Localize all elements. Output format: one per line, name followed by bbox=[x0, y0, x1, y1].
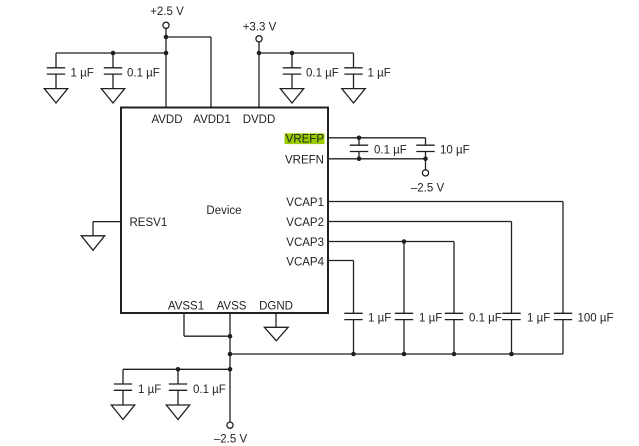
svg-text:VCAP3: VCAP3 bbox=[286, 237, 324, 249]
capacitor C11 100 uF (VCAP1) bbox=[554, 313, 614, 355]
svg-text:DVDD: DVDD bbox=[243, 114, 276, 126]
svg-text:VREFN: VREFN bbox=[285, 154, 324, 166]
ground (below C3) bbox=[280, 89, 303, 103]
power terminal -2.5 V (VREFN) bbox=[411, 170, 445, 195]
svg-text:–2.5 V: –2.5 V bbox=[214, 434, 248, 446]
svg-text:VCAP1: VCAP1 bbox=[286, 197, 324, 209]
wire RESV1 pin (horizontal) bbox=[93, 221, 121, 223]
power terminal +2.5 V (top) bbox=[150, 6, 184, 28]
pin label VREFP (highlighted) bbox=[285, 133, 325, 145]
ground (RESV1) bbox=[81, 236, 104, 251]
svg-text:AVDD: AVDD bbox=[151, 114, 182, 126]
node junction bus C7 bbox=[351, 352, 356, 357]
svg-text:1 µF: 1 µF bbox=[368, 68, 391, 80]
svg-text:100 µF: 100 µF bbox=[578, 313, 614, 325]
wire VCAP2 net (vertical) bbox=[511, 222, 513, 314]
wire VCAP3 net (vertical) bbox=[453, 242, 455, 314]
node junction bus C8 bbox=[402, 352, 407, 357]
wire +2.5V cap rail (horizontal) bbox=[56, 52, 166, 54]
wire VCAP1 net (horizontal) bbox=[328, 201, 563, 203]
node junction C5 top bbox=[357, 136, 362, 141]
svg-text:1 µF: 1 µF bbox=[419, 313, 442, 325]
node junction VCAP3 branch bbox=[402, 239, 407, 244]
capacitor C13 0.1 uF (bottom left) bbox=[169, 369, 226, 407]
capacitor C7 1 uF (VCAP4) bbox=[344, 313, 391, 355]
svg-text:VREFP: VREFP bbox=[286, 134, 325, 146]
wire VCAP4 net (vertical) bbox=[353, 261, 355, 314]
capacitor C9 0.1 uF (VCAP3) bbox=[445, 313, 502, 355]
ground (below C13) bbox=[166, 405, 189, 420]
svg-text:AVDD1: AVDD1 bbox=[193, 114, 231, 126]
wire AVSS1 to AVSS (horizontal) bbox=[184, 335, 230, 337]
svg-text:DGND: DGND bbox=[259, 301, 293, 313]
ground (below C1) bbox=[44, 89, 67, 103]
capacitor C5 0.1 uF (VREF) bbox=[350, 138, 407, 159]
node junction +3.3V cap rail bbox=[257, 51, 262, 56]
node junction +2.5V cap rail bbox=[164, 51, 169, 56]
wire VCAP1 net (vertical) bbox=[562, 202, 564, 314]
svg-text:1 µF: 1 µF bbox=[71, 68, 94, 80]
svg-text:RESV1: RESV1 bbox=[130, 217, 168, 229]
ground (below C12) bbox=[111, 405, 134, 420]
capacitor C4 1 uF (top right) bbox=[344, 53, 390, 91]
svg-text:+3.3 V: +3.3 V bbox=[243, 22, 277, 34]
svg-text:1 µF: 1 µF bbox=[527, 313, 550, 325]
wire VREFP net (horizontal) bbox=[328, 137, 426, 139]
svg-text:1 µF: 1 µF bbox=[138, 384, 161, 396]
node junction +2.5V branch bbox=[164, 35, 169, 40]
node junction bus C9 bbox=[452, 352, 457, 357]
capacitor C10 1 uF (VCAP2) bbox=[502, 313, 550, 355]
ground (below C4) bbox=[342, 89, 365, 103]
wire RESV1 to ground (vertical) bbox=[92, 222, 94, 238]
wire bottom bus (horizontal) bbox=[230, 353, 563, 355]
svg-text:VCAP4: VCAP4 bbox=[286, 256, 324, 268]
svg-text:0.1 µF: 0.1 µF bbox=[374, 145, 407, 157]
svg-text:VCAP2: VCAP2 bbox=[286, 217, 324, 229]
node junction C5 bottom bbox=[357, 157, 362, 162]
node junction AVSS cap rail bbox=[228, 367, 233, 372]
svg-text:AVSS1: AVSS1 bbox=[168, 301, 204, 313]
svg-text:0.1 µF: 0.1 µF bbox=[193, 384, 226, 396]
power terminal -2.5 V (AVSS) bbox=[214, 422, 248, 446]
wire DGND pin (vertical) bbox=[275, 313, 277, 329]
wire VREFN net (horizontal) bbox=[328, 158, 426, 160]
svg-text:–2.5 V: –2.5 V bbox=[411, 183, 445, 195]
svg-text:1 µF: 1 µF bbox=[368, 313, 391, 325]
svg-text:0.1 µF: 0.1 µF bbox=[127, 68, 160, 80]
wire AVSS pin (vertical) bbox=[229, 313, 231, 422]
svg-text:Device: Device bbox=[206, 205, 241, 217]
wire +2.5V branch to AVDD1 (horizontal) bbox=[166, 36, 211, 38]
wire +2.5V terminal to AVDD pin bbox=[165, 29, 167, 107]
wire AVDD1 pin (vertical) bbox=[210, 37, 212, 107]
wire AVSS cap rail (horizontal) bbox=[123, 368, 230, 370]
capacitor C8 1 uF (VCAP3 branch) bbox=[395, 313, 442, 355]
power terminal +3.3 V bbox=[243, 22, 277, 42]
svg-text:AVSS: AVSS bbox=[217, 301, 247, 313]
wire +3.3V cap rail (horizontal) bbox=[259, 52, 354, 54]
svg-text:0.1 µF: 0.1 µF bbox=[306, 68, 339, 80]
wire AVSS1 pin (vertical) bbox=[183, 313, 185, 336]
capacitor C6 10 uF (VREF) bbox=[416, 138, 469, 159]
node junction AVSS1/AVSS bbox=[228, 334, 233, 339]
wire VCAP2 net (horizontal) bbox=[328, 221, 512, 223]
wire +3.3V terminal to DVDD pin bbox=[258, 42, 260, 107]
node junction C3 top bbox=[290, 51, 295, 56]
ground (below C2) bbox=[101, 89, 124, 103]
wire VREFN to -2.5V terminal bbox=[425, 159, 427, 170]
svg-text:+2.5 V: +2.5 V bbox=[150, 6, 184, 18]
wire VCAP3 branch (vertical) bbox=[403, 242, 405, 314]
node junction C6 bottom bbox=[423, 157, 428, 162]
node junction bus C10 bbox=[509, 352, 514, 357]
wire VCAP3 net (horizontal) bbox=[328, 241, 454, 243]
svg-text:0.1 µF: 0.1 µF bbox=[469, 313, 502, 325]
capacitor C3 0.1 uF (top right) bbox=[283, 53, 339, 91]
capacitor C1 1 uF (top left) bbox=[47, 53, 94, 91]
svg-text:10 µF: 10 µF bbox=[440, 145, 470, 157]
node junction C13 top bbox=[176, 367, 181, 372]
wire VCAP4 net (horizontal) bbox=[328, 260, 354, 262]
node junction AVSS/bus bbox=[228, 352, 233, 357]
node junction C2 top bbox=[111, 51, 116, 56]
device U1 (main IC body) bbox=[121, 108, 328, 314]
capacitor C2 0.1 uF (top left) bbox=[104, 53, 160, 91]
ground (DGND) bbox=[264, 327, 288, 341]
capacitor C12 1 uF (bottom left) bbox=[114, 369, 161, 407]
